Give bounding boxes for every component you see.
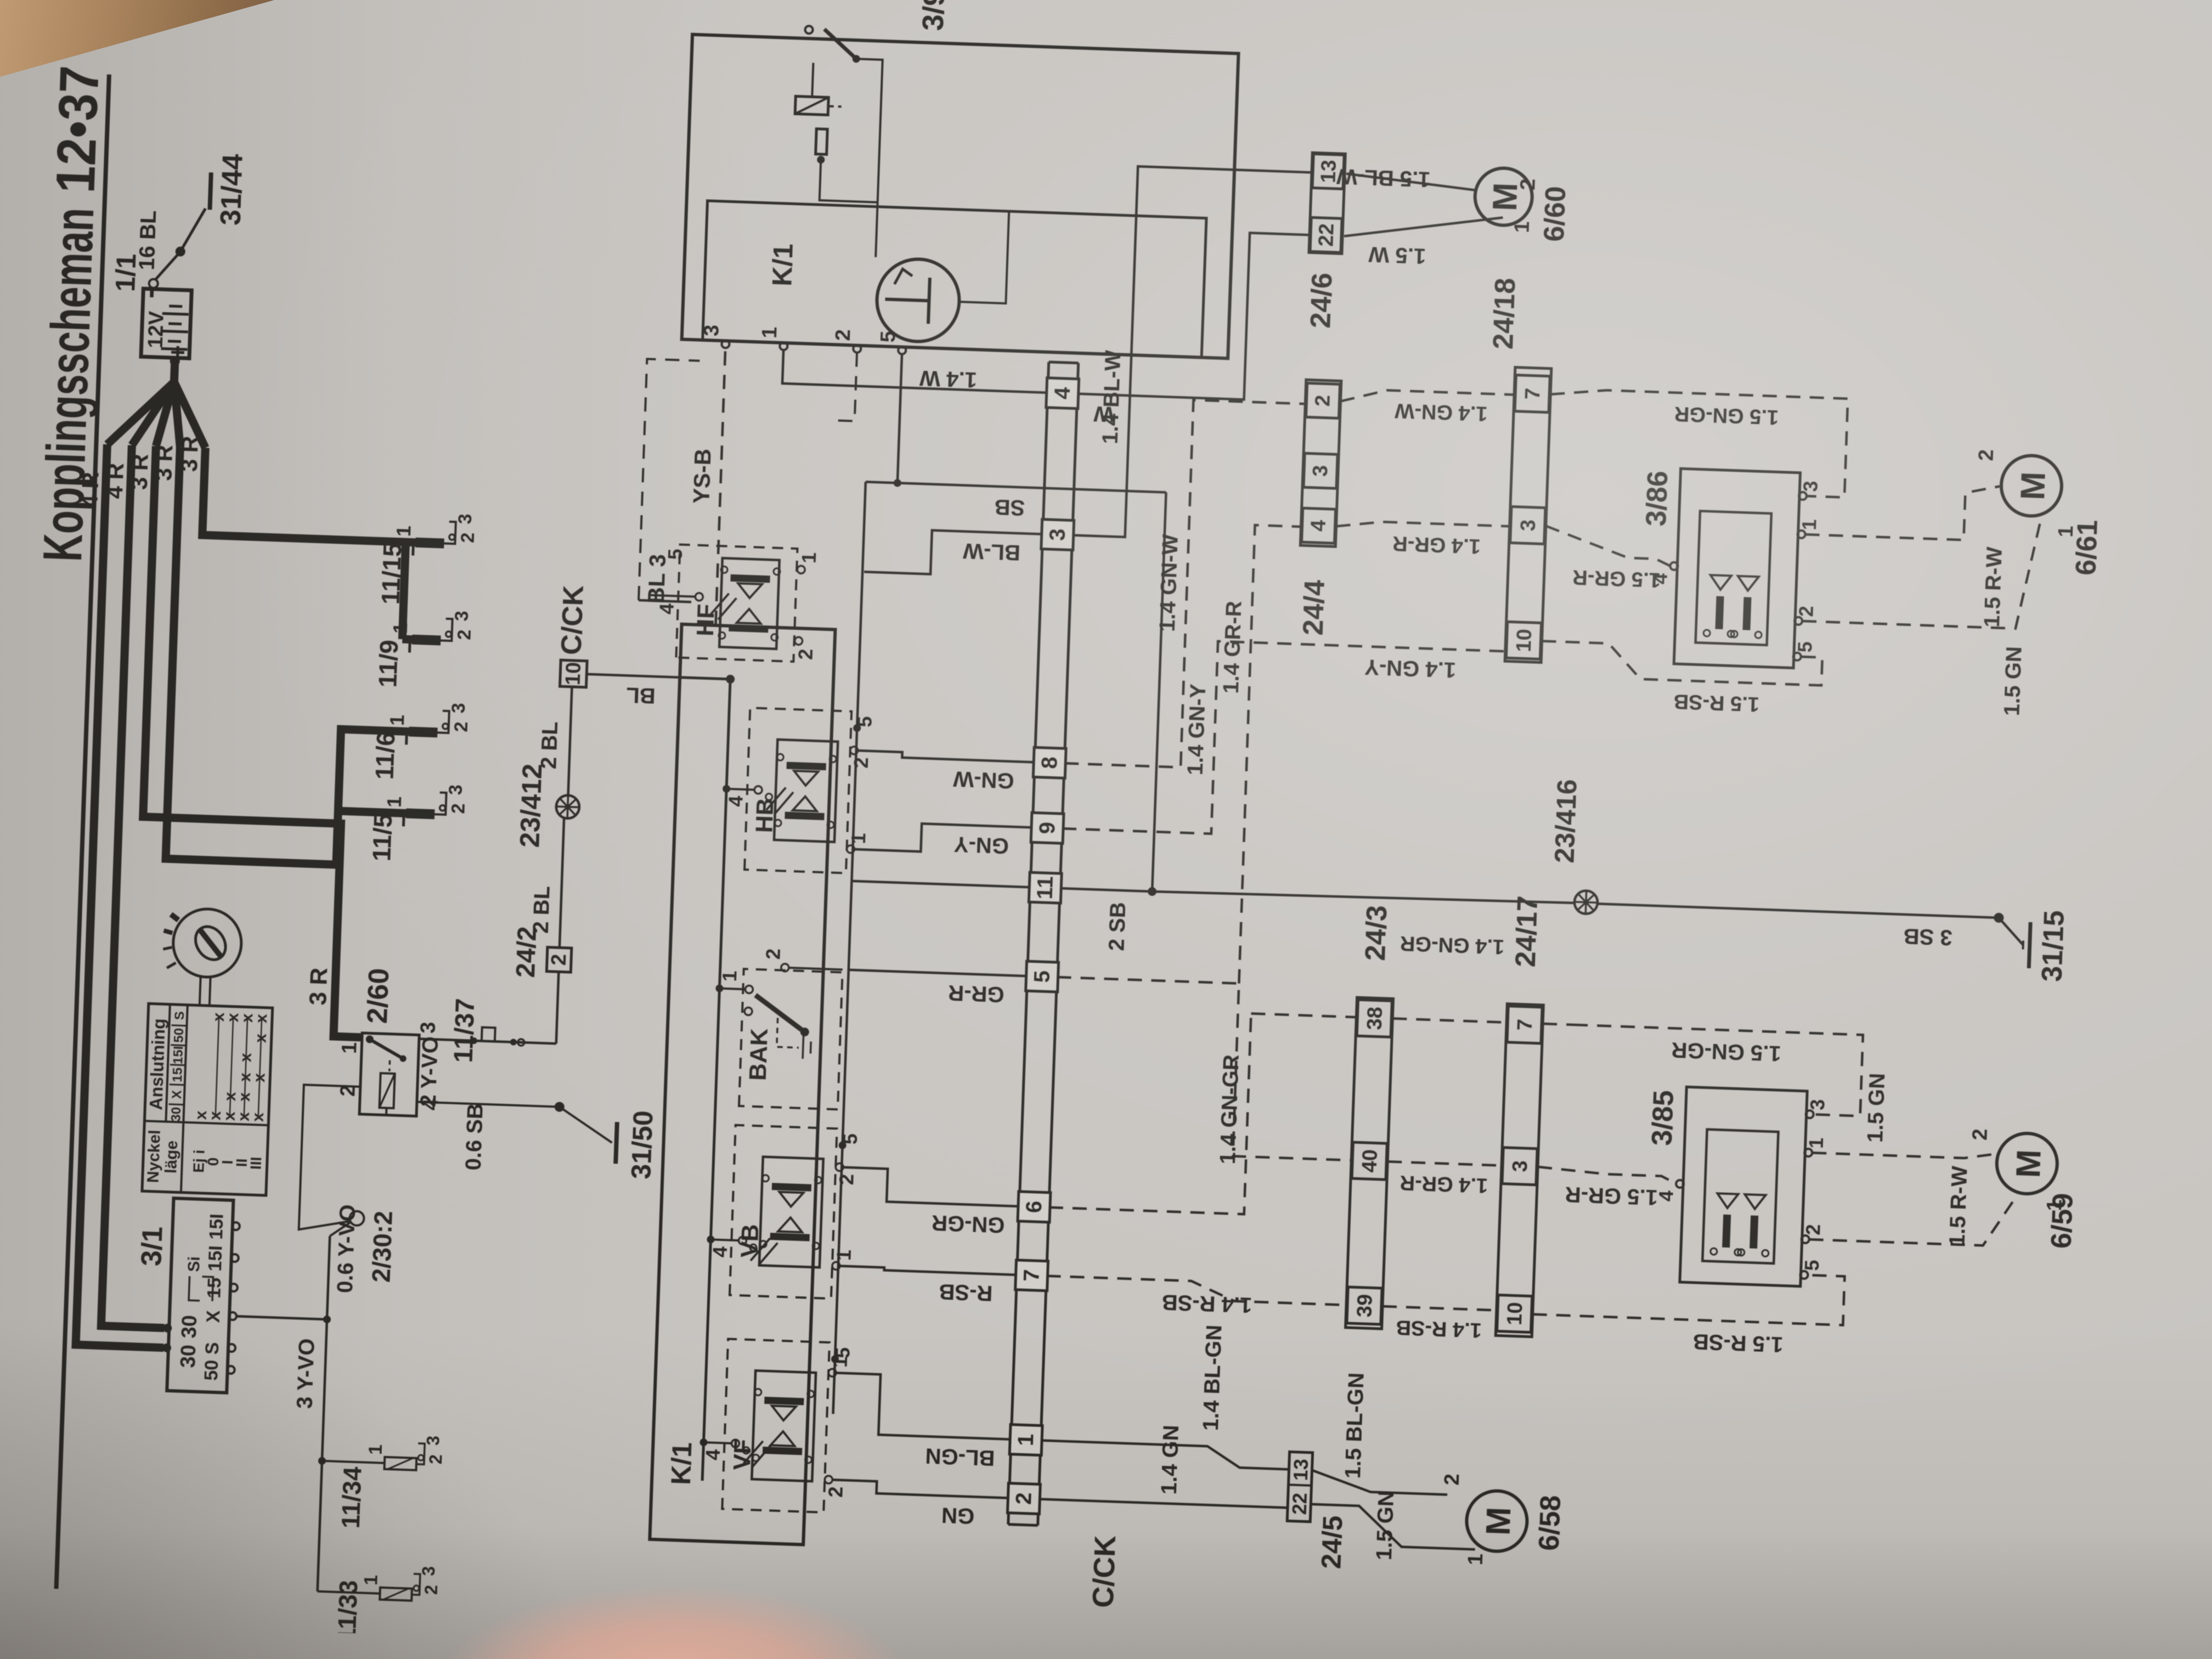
wire 4R no1 to ignition 30	[76, 444, 195, 1348]
svg-text:1: 1	[383, 796, 406, 808]
C/CK pin box 5	[1026, 961, 1059, 992]
fuse 11/34	[322, 1461, 385, 1463]
svg-text:1.4 GR-R: 1.4 GR-R	[1392, 532, 1481, 558]
door unit 3/85 box	[1680, 1087, 1807, 1286]
svg-text:22: 22	[1288, 1492, 1311, 1515]
fuse 11/9 output bracket	[441, 618, 452, 641]
svg-text:24/2: 24/2	[511, 926, 542, 978]
ground 31/44	[210, 172, 211, 210]
ground 31/15	[1998, 918, 2024, 945]
fuse 11/9	[412, 635, 441, 646]
console BL bus	[702, 679, 730, 1481]
svg-text:BL-GN: BL-GN	[925, 1443, 995, 1470]
svg-text:2: 2	[548, 953, 571, 966]
3/97 contact	[805, 26, 812, 33]
24/4 pin 3	[1304, 453, 1338, 488]
svg-text:1: 1	[1510, 221, 1534, 234]
svg-text:40: 40	[1358, 1149, 1381, 1173]
svg-text:31/50: 31/50	[625, 1110, 658, 1180]
C/CK connector strip	[1008, 362, 1049, 1525]
svg-text:Anslutning: Anslutning	[146, 1018, 169, 1110]
svg-text:1.4 GR-R: 1.4 GR-R	[1219, 601, 1246, 694]
svg-text:15I: 15I	[205, 1245, 227, 1272]
connector 24/2 pin box 2	[546, 947, 572, 973]
wire BL-GN pin1 to 24/5 pin13	[1040, 1441, 1290, 1470]
dashed harness boundary near 3/97	[639, 359, 699, 602]
wire SB to pin 11	[851, 881, 1030, 887]
dashed 1.5 R-SB 24/17-10 to 3/85 pin5	[1533, 1266, 1845, 1325]
svg-text:1: 1	[832, 1249, 855, 1261]
wire 2 BL to lamp 23/412	[560, 819, 564, 948]
3/85 pins bottom	[1800, 1271, 1808, 1279]
fuse 11/33	[318, 1592, 380, 1594]
svg-text:30: 30	[178, 1314, 201, 1339]
svg-text:1.4 W: 1.4 W	[919, 366, 977, 392]
svg-text:12•37: 12•37	[44, 65, 110, 194]
wire 3R to relay 2/60 pin1	[136, 446, 382, 1037]
svg-text:23/412: 23/412	[514, 763, 548, 848]
C/CK pin box 3	[1041, 520, 1074, 550]
wires from switches to C/CK connector	[832, 1480, 1010, 1498]
dashed GR-R pin5 to left and right	[1051, 977, 1358, 1160]
24/17 pin 3	[1502, 1148, 1537, 1185]
svg-text:GN-GR: GN-GR	[931, 1210, 1005, 1237]
svg-text:31/15: 31/15	[2036, 910, 2070, 982]
motor 6/58	[1466, 1490, 1528, 1553]
svg-text:1.5 GN-GR: 1.5 GN-GR	[1671, 1037, 1782, 1065]
dashed 1.4 GR-R 40 to 24/17 pin3	[1387, 1161, 1502, 1165]
svg-text:0.6 Y-VO: 0.6 Y-VO	[333, 1204, 360, 1294]
wire 16 BL battery to ground	[156, 253, 179, 280]
switch VF contacts	[763, 1447, 802, 1455]
dashed GN-GR pin6 to junction	[1049, 1007, 1251, 1214]
svg-text:31/44: 31/44	[215, 154, 249, 226]
dashed 1.5 R-SB 24/18-10 to 3/86 pin5	[1541, 641, 1822, 686]
svg-text:GN: GN	[941, 1503, 974, 1528]
svg-text:3/86: 3/86	[1640, 470, 1674, 527]
dashed 1.4 R-SB 39 to 24/17 pin10	[1383, 1306, 1497, 1310]
24/3 pin 38	[1357, 1000, 1392, 1037]
svg-text:7: 7	[1521, 387, 1545, 400]
3/97 clock symbol	[876, 258, 961, 343]
svg-text:2: 2	[761, 948, 785, 960]
key position table	[142, 1003, 273, 1195]
svg-text:1.5 GR-R: 1.5 GR-R	[1572, 565, 1661, 591]
svg-text:11/15: 11/15	[376, 542, 407, 605]
wire 3R to fuses 11/5 11/6	[166, 447, 419, 867]
wire SB junction horizontal	[1152, 492, 1166, 891]
dashed 1.5 GR-R 24/17-3 to 3/85 pin4	[1537, 1167, 1677, 1184]
24/17 pin 10	[1497, 1295, 1532, 1332]
svg-text:3: 3	[452, 611, 473, 622]
svg-text:2: 2	[421, 1584, 442, 1595]
dashed GN-W 24/18-7 down	[1547, 388, 1848, 498]
svg-text:2/30:2: 2/30:2	[366, 1210, 398, 1283]
wire SB switch bus to junction	[866, 482, 1166, 492]
switch HF toggle	[709, 593, 729, 617]
svg-text:2: 2	[448, 803, 469, 814]
svg-text:24/6: 24/6	[1305, 272, 1338, 329]
svg-text:4: 4	[724, 795, 747, 807]
svg-text:III: III	[247, 1156, 264, 1170]
svg-text:Si: Si	[185, 1256, 204, 1272]
C/CK pin box 9	[1031, 812, 1064, 843]
fuse 11/5	[406, 808, 435, 819]
svg-text:16 BL: 16 BL	[135, 210, 161, 270]
svg-text:K/1: K/1	[665, 1442, 698, 1486]
24/18 pin 7	[1515, 375, 1550, 413]
fuse 11/15	[415, 538, 444, 549]
lamp 23/412	[556, 795, 579, 819]
svg-text:6: 6	[1022, 1200, 1047, 1214]
connector 24/6 strip	[1309, 153, 1345, 253]
dashed GN-GR down to 24/3 pin38	[1251, 1013, 1356, 1017]
svg-text:1: 1	[798, 552, 821, 563]
svg-text:1: 1	[1805, 1137, 1828, 1149]
svg-text:1.5 GN: 1.5 GN	[1863, 1073, 1889, 1143]
wire 1.5 GN to motor 6/58 pin1	[1310, 1504, 1476, 1549]
dashed 1.4 GN-W 24/4-2 to 24/18-7	[1341, 388, 1515, 407]
fuse 11/6 pin1 label	[405, 731, 408, 744]
svg-text:1.5 R-SB: 1.5 R-SB	[1673, 690, 1760, 715]
svg-text:1.4 GN: 1.4 GN	[1157, 1425, 1183, 1495]
svg-text:2 Y-VO: 2 Y-VO	[416, 1036, 443, 1107]
svg-text:3: 3	[448, 703, 470, 714]
relay contact	[366, 1035, 374, 1043]
svg-text:2: 2	[1974, 449, 1998, 461]
svg-text:5: 5	[1793, 641, 1816, 653]
switch HF inner box	[719, 558, 780, 649]
C/CK pin box 7	[1015, 1260, 1048, 1291]
dashed 1.4 GN-GR 38 to 24/17 pin7	[1392, 1018, 1506, 1022]
svg-text:1.4 GN-Y: 1.4 GN-Y	[1183, 683, 1211, 775]
svg-text:13: 13	[1289, 1458, 1312, 1481]
connector 2/30:2	[330, 1222, 350, 1237]
dashed 1.5 R-W 3/86 pin2 to motor 6/61	[1802, 509, 2041, 629]
svg-text:0.6 SB: 0.6 SB	[461, 1103, 488, 1171]
battery cells	[161, 348, 188, 349]
motor 6/60	[1474, 167, 1533, 227]
svg-text:3: 3	[419, 1566, 439, 1576]
switch HB dashed box	[744, 708, 851, 873]
svg-text:1.4 BL-GN: 1.4 BL-GN	[1199, 1324, 1227, 1431]
wire 3 SB to ground	[1598, 904, 1999, 918]
switch VB inner box	[759, 1157, 823, 1268]
svg-text:24/17: 24/17	[1510, 895, 1544, 968]
svg-text:1: 1	[1464, 1553, 1488, 1566]
battery minus terminal	[149, 279, 158, 289]
svg-text:10: 10	[1513, 629, 1536, 653]
svg-text:4: 4	[701, 1449, 724, 1460]
wire 1.5 BL-W to motor 6/60	[1346, 174, 1477, 190]
switch VF toggle	[743, 1441, 763, 1464]
svg-text:1: 1	[847, 833, 870, 844]
svg-text:2: 2	[1441, 1473, 1464, 1486]
svg-text:GN-W: GN-W	[953, 766, 1015, 793]
bus fuse 11/9 to 11/15	[402, 542, 405, 639]
svg-text:5: 5	[1030, 970, 1054, 983]
svg-text:3/1: 3/1	[136, 1226, 168, 1267]
svg-text:50: 50	[201, 1359, 222, 1381]
C/CK pin box 4	[1046, 378, 1079, 409]
ignition switch 3/1 box	[167, 1198, 233, 1393]
svg-text:1.4 GN-Y: 1.4 GN-Y	[1364, 654, 1456, 682]
switch VB pin4	[707, 1235, 714, 1243]
dashed 1.5 GN 3/85 pin1 to motor 6/59	[1812, 1147, 1997, 1159]
fuse 11/5 pin1 label	[402, 813, 405, 826]
svg-text:1.5 GR-R: 1.5 GR-R	[1565, 1182, 1658, 1210]
wire W pin4 to 24/6	[1077, 227, 1310, 402]
svg-text:15I: 15I	[171, 1046, 186, 1064]
svg-text:39: 39	[1353, 1294, 1376, 1318]
svg-text:1.5 GN: 1.5 GN	[2000, 646, 2026, 716]
svg-text:2: 2	[450, 721, 472, 732]
24/17 pin 7	[1507, 1006, 1542, 1043]
svg-text:3: 3	[445, 784, 466, 795]
svg-text:9: 9	[1035, 821, 1060, 834]
junction dots on Y-VO bus	[323, 1316, 331, 1323]
svg-text:2 BL: 2 BL	[537, 721, 562, 769]
switch BAK pin1	[715, 984, 723, 992]
dashed R-SB pin7 to 24/3 pin39	[1046, 1276, 1347, 1305]
wire battery plus feed	[174, 358, 175, 382]
svg-text:1: 1	[758, 326, 782, 339]
wire 1.5 BL-GN to motor 6/58 pin2	[1311, 1470, 1448, 1495]
svg-text:X: X	[203, 1310, 224, 1323]
svg-text:11/33: 11/33	[332, 1579, 363, 1642]
lamp 23/416	[1574, 890, 1598, 914]
svg-text:K/1: K/1	[766, 243, 799, 287]
svg-text:15: 15	[204, 1277, 225, 1299]
svg-text:3: 3	[455, 513, 476, 524]
svg-text:1: 1	[389, 622, 412, 634]
3/97 pins on left edge	[721, 340, 729, 348]
svg-text:11/37: 11/37	[449, 998, 480, 1063]
svg-text:1.5 W: 1.5 W	[1368, 242, 1426, 268]
switch HF pin4	[650, 595, 695, 597]
svg-text:1: 1	[2043, 1199, 2067, 1211]
wire BL from 10 to console	[586, 674, 689, 678]
svg-text:15: 15	[170, 1067, 185, 1082]
fuse 11/5 output bracket	[435, 792, 446, 815]
svg-text:1.5 R-SB: 1.5 R-SB	[1692, 1329, 1784, 1357]
svg-text:50: 50	[171, 1028, 187, 1043]
svg-text:7: 7	[1019, 1269, 1044, 1282]
dashed 1.5 GN 3/86 pin1 to motor 6/61	[1805, 479, 2000, 541]
C/CK pin box 1	[1009, 1425, 1042, 1455]
svg-text:1.4 R-SB: 1.4 R-SB	[1161, 1290, 1252, 1317]
svg-text:M: M	[1480, 1506, 1519, 1536]
svg-text:BL-W: BL-W	[962, 539, 1020, 565]
3/85 pin4 top	[1676, 1180, 1684, 1188]
fuse 11/33 output	[412, 1574, 420, 1595]
fuse 11/15 pin1 label	[411, 543, 415, 556]
svg-text:2: 2	[1516, 178, 1540, 191]
switch VF dashed box	[722, 1339, 830, 1513]
3/97 relay rect	[795, 96, 828, 115]
dashed 1.5 GN-GR to 3/85 pin3	[1543, 1024, 1573, 1025]
svg-text:C/CK: C/CK	[556, 584, 590, 655]
switch VB pins 1 2	[832, 1262, 840, 1269]
switch VF pins 1 2	[828, 1369, 836, 1376]
svg-text:30: 30	[168, 1107, 184, 1122]
unit 3/97 outer box	[682, 35, 1239, 358]
svg-text:4: 4	[1050, 386, 1075, 400]
svg-text:-: -	[132, 287, 167, 299]
svg-text:2 BL: 2 BL	[529, 885, 555, 934]
svg-text:1.5 BL-W: 1.5 BL-W	[1336, 164, 1431, 191]
svg-text:4: 4	[708, 1246, 731, 1257]
svg-text:1.5 GN: 1.5 GN	[1372, 1490, 1398, 1560]
svg-text:1: 1	[392, 525, 415, 537]
24/18 pin 3	[1510, 506, 1545, 544]
switch HF dashed box	[676, 545, 797, 662]
svg-text:1.4 GN-GR: 1.4 GN-GR	[1400, 932, 1504, 958]
console switch panel box	[650, 624, 835, 1545]
wire to connector 24/2	[556, 972, 559, 1043]
dashed 1.4 GR-R 24/4-4 to 24/18-3	[1336, 520, 1510, 532]
svg-text:5: 5	[877, 330, 900, 343]
3/85 inner box	[1702, 1130, 1778, 1263]
svg-text:1: 1	[360, 1575, 382, 1585]
switch VB contacts	[770, 1233, 810, 1242]
svg-text:BAK: BAK	[744, 1028, 773, 1081]
svg-text:2/60: 2/60	[362, 968, 395, 1024]
fuse 11/34 output	[416, 1443, 425, 1464]
ignition internal Si fuse	[189, 1276, 201, 1301]
svg-text:1.4 GN-GR: 1.4 GN-GR	[1216, 1054, 1244, 1165]
svg-text:30: 30	[177, 1344, 200, 1368]
console SB bus	[833, 482, 866, 1414]
svg-text:3/97: 3/97	[917, 0, 952, 31]
svg-text:1.5 R-W: 1.5 R-W	[1980, 546, 2007, 628]
connector box 10 C/CK	[560, 660, 587, 687]
svg-text:YS-B: YS-B	[688, 448, 715, 504]
svg-text:X: X	[170, 1090, 185, 1099]
door unit 3/86 box	[1674, 469, 1800, 668]
C/CK pin box 11	[1029, 872, 1062, 903]
wire 3/97 pin2 dashed	[833, 352, 857, 421]
svg-text:6/58: 6/58	[1533, 1494, 1567, 1551]
svg-text:2: 2	[835, 1173, 858, 1185]
switch HB inner box	[774, 740, 838, 842]
svg-text:4: 4	[655, 603, 678, 614]
svg-text:24/3: 24/3	[1359, 905, 1393, 961]
svg-text:2: 2	[458, 532, 479, 543]
svg-text:2: 2	[336, 1085, 360, 1097]
svg-text:10: 10	[1503, 1302, 1527, 1326]
fuse 11/9 pin1 label	[408, 640, 411, 653]
svg-text:S: S	[172, 1011, 188, 1020]
switch HF pins	[797, 566, 805, 573]
24/3 pin 40	[1352, 1142, 1387, 1180]
relay 2/60 box	[359, 1033, 419, 1116]
wire SB 3/97 pin5	[898, 354, 902, 483]
dashed 1.5 GR-R 24/18-3 to 3/86 pin4	[1545, 526, 1672, 566]
svg-text:1: 1	[718, 970, 741, 981]
24/4 pin 4	[1302, 508, 1336, 543]
24/4 pin 2	[1306, 383, 1340, 418]
svg-text:8: 8	[1037, 756, 1062, 769]
svg-text:1.5 BL-GN: 1.5 BL-GN	[1341, 1372, 1369, 1479]
wire 1.4 W from 3/97 pin1	[782, 350, 1049, 393]
svg-text:4: 4	[1307, 520, 1330, 532]
svg-text:3: 3	[1509, 1160, 1532, 1172]
svg-text:3: 3	[1516, 519, 1540, 532]
3/86 pins bottom	[1793, 653, 1801, 661]
wire 3 SB down to lamp 23/416	[1152, 888, 1575, 906]
dashed GN-Y pin9 right	[1062, 636, 1505, 844]
svg-text:2: 2	[454, 629, 475, 640]
svg-text:15I: 15I	[206, 1214, 228, 1240]
svg-text:3: 3	[700, 324, 724, 337]
switch HB pins 1 2	[847, 845, 854, 853]
3/97 resistor	[816, 129, 828, 155]
switch VF pin4	[699, 1438, 707, 1446]
wire relay pin2 to 2/30:2	[299, 1085, 360, 1231]
wire GN pin2 to 24/5 pin22	[1039, 1499, 1288, 1508]
switch VB dashed box	[730, 1125, 837, 1299]
svg-text:1: 1	[1014, 1434, 1039, 1447]
svg-text:R-SB: R-SB	[939, 1279, 993, 1305]
svg-text:3: 3	[423, 1435, 443, 1446]
ignition 30 terminals	[162, 1344, 172, 1353]
motor 6/61	[2000, 455, 2063, 517]
wire YS-B console to 3/97	[716, 348, 726, 625]
svg-text:5: 5	[1801, 1260, 1824, 1271]
svg-text:11: 11	[1033, 876, 1058, 900]
svg-text:S: S	[202, 1342, 223, 1355]
3/97 inner connector box	[703, 201, 1206, 358]
svg-text:3 R: 3 R	[304, 967, 332, 1006]
svg-text:4 R: 4 R	[76, 472, 103, 509]
3/86 contacts	[1710, 575, 1731, 590]
svg-text:1: 1	[338, 1042, 362, 1054]
svg-text:1: 1	[386, 714, 409, 726]
svg-text:3: 3	[1309, 465, 1333, 477]
relay pin3 wire 2 Y-VO	[419, 1039, 556, 1044]
switch VB toggle	[751, 1238, 770, 1261]
svg-text:3: 3	[1045, 528, 1070, 541]
svg-text:3: 3	[1799, 481, 1822, 492]
svg-text:2: 2	[824, 1486, 847, 1498]
svg-text:M: M	[2010, 1149, 2049, 1178]
svg-text:Nyckel: Nyckel	[144, 1130, 163, 1183]
svg-text:11/5: 11/5	[367, 813, 397, 862]
branch to fuse 11/5	[338, 811, 406, 813]
svg-text:11/9: 11/9	[373, 639, 403, 688]
fuse 11/6 output bracket	[437, 710, 449, 733]
inline fuse 11/37	[482, 1028, 509, 1042]
svg-text:SB: SB	[994, 495, 1025, 520]
key switch symbol	[172, 908, 242, 978]
svg-text:2: 2	[1968, 1128, 1992, 1141]
svg-text:C/CK: C/CK	[1087, 1535, 1122, 1609]
svg-text:1.4 GN-W: 1.4 GN-W	[1395, 399, 1488, 425]
svg-text:11/34: 11/34	[336, 1466, 367, 1529]
wire 2 SB pin11 to junction	[1060, 888, 1152, 891]
svg-text:3 SB: 3 SB	[1903, 924, 1953, 950]
wire 3 Y-VO from ignition X	[236, 1316, 327, 1319]
24/18 pin 10	[1506, 622, 1541, 659]
svg-text:22: 22	[1314, 223, 1338, 247]
svg-text:1.4 BL-W: 1.4 BL-W	[1098, 349, 1126, 444]
svg-text:6/60: 6/60	[1538, 185, 1572, 242]
connector 24/18 strip	[1505, 368, 1551, 663]
svg-text:läge: läge	[162, 1140, 181, 1173]
svg-text:1.5 R-W: 1.5 R-W	[1945, 1165, 1972, 1246]
switch HB toggle	[766, 787, 786, 810]
